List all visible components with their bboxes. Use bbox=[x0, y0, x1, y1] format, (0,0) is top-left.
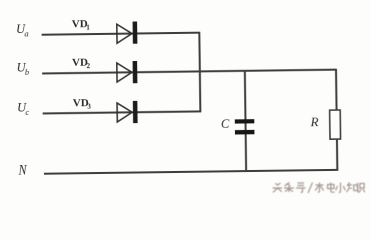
svg-text:R: R bbox=[309, 114, 318, 129]
svg-text:1: 1 bbox=[86, 24, 90, 32]
svg-text:C: C bbox=[221, 117, 230, 131]
svg-text:c: c bbox=[25, 107, 29, 117]
svg-text:N: N bbox=[18, 163, 28, 179]
svg-text:2: 2 bbox=[87, 62, 91, 70]
svg-text:b: b bbox=[25, 67, 29, 77]
svg-text:a: a bbox=[24, 28, 28, 38]
svg-text:3: 3 bbox=[87, 102, 91, 110]
